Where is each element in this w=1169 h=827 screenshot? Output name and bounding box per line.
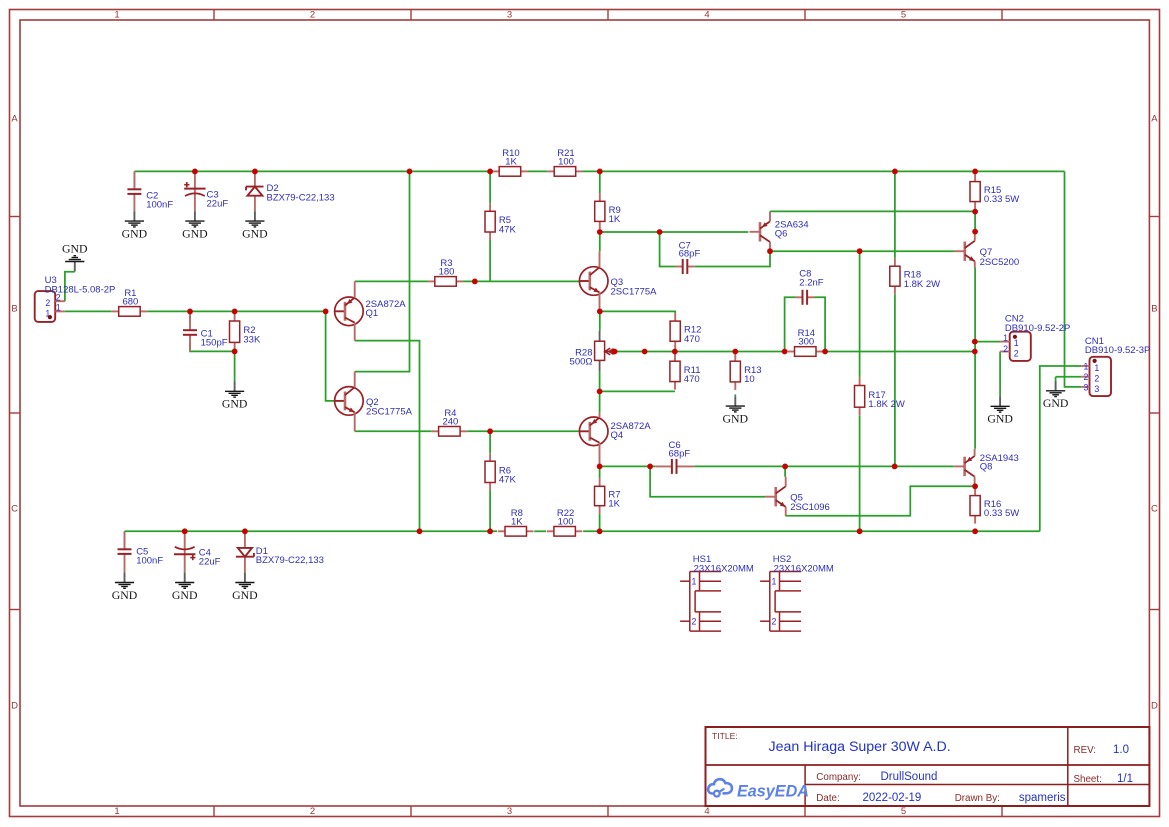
wire R28 to Q4 collector net [599,371,601,391]
junction [487,428,493,434]
ground GND (U3) [62,242,88,272]
svg-text:4: 4 [704,806,709,817]
junction [597,389,603,395]
svg-text:33K: 33K [243,334,261,345]
EasyEDA logo [708,779,809,800]
wire Q3 emitter to R28 [599,312,601,331]
svg-text:2: 2 [692,617,697,627]
resistor R17 [855,378,905,416]
heatsink HS1 23X16X20MM [680,554,754,631]
svg-text:Company:: Company: [816,772,861,783]
junction [767,248,773,254]
wire R2 bottom to ground [234,350,236,381]
svg-text:C: C [11,503,18,514]
ground GND (D1) [232,573,258,602]
zener diode D2 [246,171,335,211]
junction [672,349,678,355]
svg-text:REV:: REV: [1074,745,1097,756]
svg-text:1: 1 [772,577,777,587]
wire to C7 left [660,232,675,267]
junction [642,349,648,355]
transistor Q3 (2SC1775A) [579,251,657,311]
svg-text:22uF: 22uF [199,556,221,567]
svg-text:Q4: Q4 [611,430,624,441]
svg-text:3: 3 [507,10,512,21]
svg-text:GND: GND [222,397,248,411]
wire to Q4 collector [599,391,601,412]
svg-text:470: 470 [684,334,700,345]
junction [612,349,618,355]
svg-text:GND: GND [122,226,148,240]
svg-text:D: D [1151,700,1158,711]
transistor Q7 (2SC5200) [954,232,1019,268]
junction [732,349,738,355]
junction [487,169,493,175]
svg-text:A: A [11,113,18,124]
wire Q1 emitter to V- rail [355,341,420,532]
wire U3 pin2 to ground [65,272,75,302]
wire Q1 base to Q2 base [326,311,335,401]
svg-text:spameris: spameris [1019,792,1066,804]
junction [242,528,248,534]
svg-text:Drawn By:: Drawn By: [955,793,1000,804]
wire V+ to R18 [894,171,896,258]
svg-text:1: 1 [692,577,697,587]
svg-text:1: 1 [114,806,119,817]
svg-text:2SC1775A: 2SC1775A [366,406,413,417]
svg-text:GND: GND [62,242,88,256]
resistor R6 [485,453,516,490]
wire to R2 top [234,311,236,313]
svg-text:1.0: 1.0 [1113,744,1129,756]
wire R17 bottom to V- rail [859,415,861,531]
wire to R17 top [859,251,861,377]
svg-text:100nF: 100nF [146,199,173,210]
svg-text:10: 10 [744,374,755,385]
transistor Q5 (2SC1096) [765,477,830,516]
svg-text:1: 1 [1014,338,1019,348]
transistor Q6 (2SA634) [750,211,809,251]
junction [972,229,978,235]
junction [857,248,863,254]
resistor R14 [788,328,823,356]
capacitor C8 [795,269,824,305]
svg-text:500Ω: 500Ω [570,357,593,368]
wire C6 to R18 bottom [694,465,894,467]
svg-text:Q8: Q8 [980,462,993,473]
heatsink HS2 23X16X20MM [760,554,834,631]
svg-text:DB128L-5.08-2P: DB128L-5.08-2P [45,284,116,295]
wire C6 left to Q5 base [650,466,765,496]
junction [972,169,978,175]
wire to R7 top [599,466,601,478]
svg-text:1K: 1K [511,517,523,528]
title block [706,727,1150,806]
svg-text:68pF: 68pF [669,448,691,459]
junction [407,169,413,175]
junction [657,229,663,235]
junction [972,483,978,489]
wire rail to C5 [124,531,126,547]
transistor Q1 (2SA872A) [335,281,407,340]
svg-text:TITLE:: TITLE: [712,731,738,741]
junction [187,309,193,315]
wire feedback row right [825,351,975,353]
svg-text:Jean Hiraga Super 30W A.D.: Jean Hiraga Super 30W A.D. [769,739,951,755]
svg-text:68pF: 68pF [679,249,701,260]
ground GND (C4) [172,573,198,602]
resistor R22 [547,508,582,536]
wire R7 bottom to V- rail [599,514,601,532]
svg-text:2SC1775A: 2SC1775A [611,287,658,298]
wire R13 to ground [734,394,736,396]
junction [182,528,188,534]
ground GND (R13) [723,396,749,425]
junction [647,464,653,470]
svg-text:1: 1 [1094,363,1099,373]
wire Q6 collector to Q7 base [770,250,954,252]
wire rail to C2 [133,171,135,187]
svg-text:2: 2 [772,617,777,627]
capacitor C4 (polarized) [174,531,221,572]
svg-text:100: 100 [558,157,574,168]
capacitor C6 [655,440,694,474]
svg-text:100nF: 100nF [136,556,163,567]
svg-text:2: 2 [310,10,315,21]
svg-text:Q1: Q1 [366,308,379,319]
wire R4 to Q4 base [467,430,579,432]
wire net V+ top rail [134,170,1064,172]
wire V+ to CN1 pin3 [1065,171,1082,387]
resistor R5 [485,203,516,240]
svg-text:5: 5 [901,10,906,21]
wire R9 to Q3 collector [599,230,601,252]
junction [417,528,423,534]
wire R28 stubs [599,331,601,372]
wire U3 pin1 to R1 [65,310,112,312]
svg-text:GND: GND [182,226,208,240]
wire to R13 [734,352,736,354]
wire to C1 top [189,311,191,322]
wire to R6 top [489,431,491,453]
svg-text:2: 2 [1094,374,1099,384]
junction [892,464,898,470]
svg-text:GND: GND [723,411,749,425]
junction [487,528,493,534]
resistor R7 [595,478,621,513]
svg-text:2: 2 [1084,372,1089,382]
svg-text:22uF: 22uF [207,199,229,210]
zener diode D1 [236,531,324,572]
wire Q5 emitter to Q8 collector [785,486,975,516]
resistor R1 [112,288,147,316]
svg-text:GND: GND [987,412,1013,426]
wire C8 left branch [785,297,796,351]
svg-text:D: D [11,700,18,711]
svg-text:2: 2 [310,806,315,817]
junction [232,349,238,355]
resistor R11 [670,353,701,389]
junction [597,464,603,470]
svg-text:GND: GND [112,588,138,602]
svg-text:GND: GND [172,588,198,602]
resistor R12 [670,313,701,349]
svg-text:2: 2 [1003,344,1008,354]
svg-text:DB910-9.52-3P: DB910-9.52-3P [1085,345,1150,356]
wire feedback row left [615,351,785,353]
junction [972,209,978,215]
svg-text:470: 470 [684,374,700,385]
svg-text:23X16X20MM: 23X16X20MM [694,563,754,574]
wire R11 bottom row [600,390,675,392]
junction [782,349,788,355]
svg-text:DB910-9.52-2P: DB910-9.52-2P [1005,323,1070,334]
svg-text:GND: GND [242,226,268,240]
wire R9/Q3 to Q6 base [600,231,749,233]
transistor Q4 (2SA872A) [579,413,651,467]
svg-text:180: 180 [439,267,455,278]
svg-text:2SC1096: 2SC1096 [790,502,830,513]
svg-text:300: 300 [798,337,814,348]
ground GND (C3) [182,211,208,240]
connector U3 DB128L-5.08-2P [35,275,116,322]
junction [782,464,788,470]
svg-text:1: 1 [56,303,61,313]
resistor R15 [970,174,1019,210]
wire V- rail to CN1 pin1 [1040,366,1082,531]
wire C8 right branch [815,297,826,351]
resistor R18 [890,258,940,294]
wire V+ to R9 [599,171,601,193]
resistor R2 [230,313,261,350]
svg-text:1: 1 [1003,333,1008,343]
svg-text:150pF: 150pF [201,338,228,349]
svg-text:BZX79-C22,133: BZX79-C22,133 [256,555,324,566]
junction [597,229,603,235]
resistor R21 [547,148,582,176]
wire R18 bottom to Q8 base net [894,294,896,466]
svg-text:3: 3 [507,806,512,817]
svg-text:2SC5200: 2SC5200 [980,257,1020,268]
resistor R10 [492,148,527,176]
svg-text:5: 5 [901,806,906,817]
wire V+ to Q2 collector [355,171,410,371]
svg-text:1: 1 [1084,362,1089,372]
wire R6 bottom to V- rail [489,491,491,532]
svg-text:1.8K 2W: 1.8K 2W [868,399,904,410]
capacitor C2 [127,171,173,211]
resistor R4 [432,408,467,436]
svg-text:100: 100 [558,517,574,528]
junction [857,528,863,534]
svg-text:Q6: Q6 [775,229,788,240]
svg-text:1.8K 2W: 1.8K 2W [904,279,940,290]
junction [892,169,898,175]
svg-text:GND: GND [232,588,258,602]
capacitor C1 [183,311,228,351]
resistor R9 [595,193,621,229]
svg-text:2.2nF: 2.2nF [799,277,823,288]
svg-text:240: 240 [442,417,458,428]
wire Q2 emitter to R4 [355,430,432,432]
wire CN2 pin2 to ground [999,352,1001,397]
svg-text:1K: 1K [608,499,620,510]
wire R3 to Q3 base [463,280,579,282]
svg-text:1K: 1K [505,157,517,168]
svg-text:3: 3 [1094,384,1099,394]
svg-text:Sheet:: Sheet: [1074,774,1102,785]
junction [192,169,198,175]
svg-text:23X16X20MM: 23X16X20MM [774,563,834,574]
wire to Q8 base [895,465,954,467]
ground GND (R2) [222,381,248,410]
capacitor C7 [675,240,700,274]
svg-text:1: 1 [114,10,119,21]
resistor R16 [970,488,1019,524]
svg-text:3: 3 [1084,382,1089,392]
wire net V- bottom rail [125,530,1040,532]
svg-text:C: C [1151,503,1158,514]
svg-text:0.33 5W: 0.33 5W [984,508,1019,519]
junction [597,169,603,175]
resistor R13 [730,353,761,390]
junction [472,279,478,285]
wire Q6 emitter to R15 bottom [770,210,975,212]
wire C1 bottom to R2 bottom [190,343,235,352]
trimmer potentiometer R28 [570,341,615,368]
svg-text:B: B [1151,303,1157,314]
ground GND (C5) [112,573,138,602]
svg-text:47K: 47K [499,224,517,235]
wire C7 right to Q6 collector [695,251,770,266]
resistor R3 [428,258,463,286]
capacitor C3 (polarized) [184,171,228,211]
svg-text:DrullSound: DrullSound [881,771,938,783]
svg-text:1/1: 1/1 [1117,773,1133,785]
connector CN2 DB910-9.52-2P [1000,314,1070,361]
svg-text:EasyEDA: EasyEDA [737,782,809,800]
svg-text:4: 4 [704,10,709,21]
transistor Q2 (2SC1775A) [335,372,413,432]
wire R1 to Q1 base [147,310,326,312]
junction [232,309,238,315]
svg-text:2022-02-19: 2022-02-19 [863,792,922,804]
svg-text:GND: GND [1043,396,1069,410]
svg-text:1K: 1K [609,214,621,225]
junction [972,528,978,534]
ground GND (CN1) [1043,381,1069,410]
junction [822,349,828,355]
svg-text:A: A [1151,113,1158,124]
wire R5 to Q3 base net [489,240,491,281]
wire Q4 emitter row [600,465,656,467]
svg-text:2: 2 [1014,349,1019,359]
junction [597,309,603,315]
transistor Q8 (2SA1943) [954,449,1019,487]
resistor R8 [498,508,533,536]
junction [972,339,978,345]
wire CN1 pin2 to ground [1056,376,1082,378]
junction [252,169,258,175]
wire CN1 pin2 ground drop [1055,377,1057,381]
wire output to CN2 pin1 [975,341,1000,343]
ground GND (C2) [122,211,148,240]
ground GND (CN2) [987,396,1013,425]
junction [323,309,329,315]
connector CN1 DB910-9.52-3P [1081,336,1150,396]
wire Q5 collector to Q4 emitter row [784,466,786,476]
wire V+ to R5 [489,171,491,203]
wire output Q7 emitter to Q8 emitter [974,268,976,449]
svg-text:2: 2 [45,298,50,308]
junction [597,528,603,534]
svg-text:BZX79-C22,133: BZX79-C22,133 [267,193,335,204]
capacitor C5 [118,531,164,572]
svg-text:680: 680 [122,297,138,308]
svg-text:0.33 5W: 0.33 5W [984,194,1019,205]
ground GND (D2) [242,211,268,240]
svg-text:47K: 47K [499,474,517,485]
junction [972,349,978,355]
svg-text:Date:: Date: [816,793,839,804]
svg-text:B: B [11,303,17,314]
wire R15 to Q7 collector [974,212,976,232]
wire Q3 emitter to R12 [600,311,675,313]
wire Q1 collector to R3 [355,280,428,282]
